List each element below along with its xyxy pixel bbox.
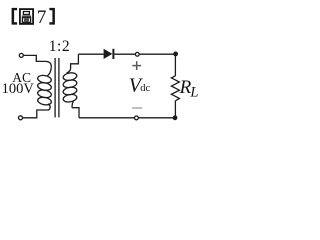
inductor secondary winding loop 2 bbox=[63, 79, 78, 89]
inductor secondary winding loop 3 bbox=[63, 86, 78, 96]
wire right rail top bbox=[174, 54, 176, 76]
wire secondary top lead bbox=[67, 54, 79, 73]
svg-text:1:2: 1:2 bbox=[49, 38, 70, 55]
terminal circle top-left bbox=[19, 53, 23, 57]
resistor RL zigzag bbox=[171, 76, 179, 101]
inductor primary winding loop 4 bbox=[37, 96, 52, 106]
wire right rail bottom bbox=[174, 101, 176, 118]
inductor secondary winding loop 1 bbox=[63, 72, 78, 82]
junction dot top right bbox=[173, 52, 178, 57]
wire anode bbox=[78, 53, 103, 55]
svg-text:L: L bbox=[189, 85, 198, 101]
wire primary loop exit tail bbox=[48, 104, 50, 110]
inductor primary winding loop 2 bbox=[37, 82, 52, 92]
wire bottom to corner bbox=[138, 117, 175, 119]
polarity plus sign bbox=[132, 61, 141, 70]
inductor primary winding loop 1 bbox=[37, 74, 52, 84]
inductor primary winding loop 3 bbox=[37, 89, 52, 99]
title glyph 圖 bbox=[20, 9, 33, 24]
wire cathode to node bbox=[114, 53, 135, 55]
wire primary top lead bbox=[23, 55, 51, 66]
junction dot bottom right bbox=[173, 115, 178, 120]
inductor secondary winding loop 4 bbox=[63, 93, 78, 103]
wire secondary bottom lead bbox=[72, 108, 79, 118]
transformer core line left bbox=[54, 58, 56, 117]
svg-text:dc: dc bbox=[140, 83, 150, 94]
wire primary loop entry tail bbox=[48, 66, 52, 76]
diode D1 triangle bbox=[104, 49, 113, 59]
diode D1 cathode bar bbox=[112, 49, 114, 59]
svg-text:7: 7 bbox=[37, 7, 47, 28]
node circle Vdc minus bbox=[135, 116, 139, 120]
wire primary bottom lead bbox=[23, 110, 49, 118]
title bracket left 【 bbox=[12, 8, 18, 25]
wire secondary loop exit tail bbox=[72, 101, 74, 107]
wire node to corner bbox=[139, 53, 175, 55]
title bracket right 】 bbox=[49, 8, 55, 25]
svg-text:100V: 100V bbox=[2, 81, 35, 97]
terminal circle bottom-left bbox=[19, 116, 23, 120]
transformer core line right bbox=[58, 58, 60, 117]
polarity minus sign bbox=[132, 107, 142, 109]
node circle Vdc plus bbox=[135, 52, 139, 56]
wire bottom secondary bbox=[79, 117, 135, 119]
